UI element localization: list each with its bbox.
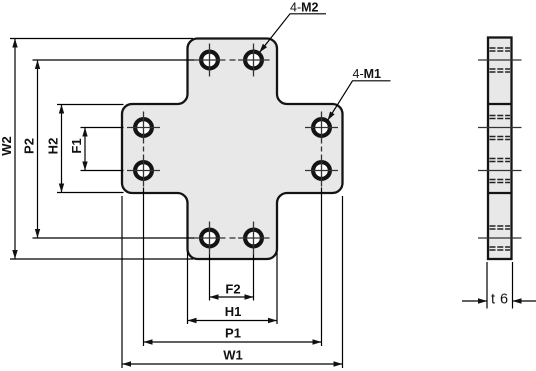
hole M2 top-left xyxy=(201,52,218,69)
hole M2 bottom-left xyxy=(201,230,218,247)
svg-text:F1: F1 xyxy=(69,138,84,153)
centerline bottom hole pair xyxy=(194,222,270,255)
hole M2 top-right xyxy=(245,52,262,69)
svg-text:H2: H2 xyxy=(45,138,60,155)
side view hole centerlines xyxy=(478,60,522,238)
hole M1 left-bottom xyxy=(135,162,152,179)
centerline top hole pair xyxy=(194,44,270,77)
hidden thread lines row 2 xyxy=(490,116,511,140)
hidden thread lines row 1 xyxy=(490,48,511,72)
svg-text:F2: F2 xyxy=(225,282,240,297)
dimension P1 xyxy=(144,188,322,347)
svg-text:H1: H1 xyxy=(225,304,242,319)
side view arm edge top xyxy=(488,103,512,105)
hidden thread lines row 4 xyxy=(490,226,511,250)
hole M1 right-top xyxy=(313,119,330,136)
hole M1 right-bottom xyxy=(313,162,330,179)
side view plate section xyxy=(488,38,512,260)
centerline left hole pair xyxy=(127,112,160,187)
svg-text:4-M1: 4-M1 xyxy=(353,67,382,81)
dimension H2 xyxy=(45,105,123,193)
side view arm edge bottom xyxy=(488,192,512,194)
dimension F1 xyxy=(69,128,124,171)
cross plate outline xyxy=(122,39,343,260)
hole M2 bottom-right xyxy=(245,230,262,247)
svg-text:t 6: t 6 xyxy=(491,292,509,308)
svg-text:4-M2: 4-M2 xyxy=(290,0,319,14)
svg-text:W1: W1 xyxy=(223,348,243,363)
centerline right hole pair xyxy=(305,112,338,187)
dimension F2 xyxy=(210,255,254,301)
dimension H1 xyxy=(188,252,278,324)
svg-text:P1: P1 xyxy=(225,326,241,341)
svg-text:P2: P2 xyxy=(21,138,36,154)
label 4-M1 with leader xyxy=(328,67,391,120)
dimension W1 xyxy=(122,196,343,368)
label 4-M2 with leader xyxy=(259,0,326,52)
hidden thread lines row 3 xyxy=(490,159,511,183)
hole M1 left-top xyxy=(135,119,152,136)
dimension t6 xyxy=(462,262,536,309)
dimension P2 xyxy=(21,60,194,238)
svg-text:W2: W2 xyxy=(0,136,14,156)
dimension W2 xyxy=(0,39,193,260)
